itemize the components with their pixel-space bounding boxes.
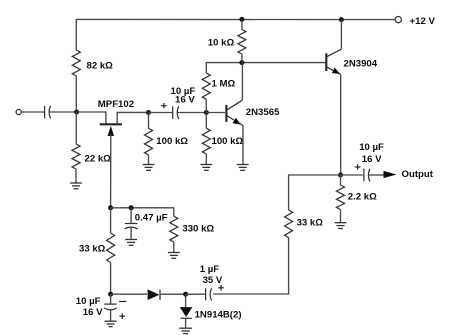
svg-text:16 V: 16 V [362, 154, 382, 165]
label 1M [212, 79, 236, 90]
svg-text:Output: Output [402, 169, 434, 180]
node output junction [338, 173, 343, 178]
node bottom left junction [108, 292, 113, 297]
minus sign 10uF bottom [119, 301, 126, 303]
node diode junction [183, 292, 188, 297]
wire 0.47uF to ground [130, 228, 132, 239]
wire 2N3904 collector up [340, 20, 342, 50]
label 10uF output [359, 142, 384, 153]
node 2N3565 base junction [204, 110, 209, 115]
transistor 2N3565 [206, 100, 243, 125]
label Output [402, 169, 434, 180]
wire top supply rail [76, 19, 395, 50]
wire 10uF bottom to ground [110, 310, 112, 321]
resistor 1M [202, 73, 210, 99]
label 16V output [362, 154, 382, 165]
label 33k left [79, 244, 106, 255]
terminal +12V [395, 17, 401, 23]
svg-text:33 kΩ: 33 kΩ [297, 218, 324, 229]
ground below 100k right [200, 165, 212, 171]
wire tap to 0.47uF [130, 208, 132, 223]
wire mid node to 1uF cap [186, 293, 206, 295]
wire base node to 100k right [205, 113, 207, 129]
wire 82k to input node [75, 76, 77, 112]
plus sign 10uF bottom [120, 313, 126, 319]
svg-text:10 µF: 10 µF [359, 142, 384, 153]
label 16V bottom [83, 307, 103, 318]
label 2N3904 [344, 59, 378, 70]
ground below shunt diode [179, 328, 192, 333]
svg-text:1 MΩ: 1 MΩ [212, 79, 236, 90]
svg-text:100 kΩ: 100 kΩ [156, 136, 188, 147]
node input junction [74, 110, 79, 115]
wire diode to mid node [160, 293, 183, 295]
svg-text:1 µF: 1 µF [200, 264, 220, 275]
wire 100k right to ground [205, 154, 207, 165]
svg-text:16 V: 16 V [83, 307, 103, 318]
label 2.2k [348, 192, 377, 203]
svg-text:MPF102: MPF102 [98, 99, 134, 110]
wire 2N3904 emitter down [340, 74, 342, 175]
svg-text:2N3904: 2N3904 [344, 59, 378, 70]
svg-text:1N914B(2): 1N914B(2) [195, 310, 242, 321]
wire shunt diode to ground [185, 318, 187, 328]
terminal input [16, 109, 21, 114]
ground below 10uF bottom [105, 321, 117, 326]
node feedback junction [108, 205, 113, 210]
label 100k left [156, 136, 188, 147]
wire 2N3565 emitter down [242, 126, 244, 165]
wire 2N3565 collector up [241, 63, 243, 101]
capacitor 10uF interstage [173, 106, 179, 119]
capacitor 10uF output [364, 169, 370, 182]
wire cap to input node [49, 111, 74, 113]
svg-text:+12 V: +12 V [410, 16, 436, 27]
node JFET source junction [146, 110, 151, 115]
transistor MPF102 [100, 112, 146, 136]
svg-text:10 µF: 10 µF [76, 296, 101, 307]
capacitor 10uF bottom [104, 304, 117, 310]
wire cap to base node [177, 112, 204, 114]
wire 2.2k to ground [340, 210, 342, 223]
wire 100k left to ground [148, 155, 150, 165]
wire output node to 2.2k [340, 175, 342, 185]
svg-text:33 kΩ: 33 kΩ [79, 244, 106, 255]
resistor 2.2k [337, 185, 345, 210]
resistor 33k right [285, 210, 293, 238]
label 1N914B(2) [195, 310, 242, 321]
label 82k [87, 61, 114, 72]
ground below 22k [70, 183, 82, 189]
ground below 0.47uF [125, 240, 137, 246]
plus sign 10uF interstage [161, 103, 167, 108]
wire feedback node to 330k [111, 208, 174, 217]
capacitor input coupling [45, 106, 51, 119]
wire source node to 10uF cap [149, 112, 173, 114]
label 10uF interstage [171, 86, 196, 97]
resistor 100k left [145, 128, 153, 155]
label +12 V [410, 16, 436, 27]
resistor 100k right [202, 128, 210, 154]
transistor 2N3904 [326, 49, 341, 74]
ground below 2.2k [335, 223, 347, 229]
svg-text:10 kΩ: 10 kΩ [208, 38, 235, 49]
resistor 10k [238, 30, 246, 54]
label 16V interstage [175, 95, 195, 106]
wire 1M top corner [205, 99, 207, 112]
arrow output [384, 171, 397, 178]
wire 1M to collector rail [206, 63, 325, 73]
svg-text:16 V: 16 V [175, 95, 195, 106]
resistor 22k [72, 144, 80, 169]
diode series 1N914B [148, 289, 160, 300]
wire input node to JFET drain [77, 112, 106, 123]
wire 33k right down to bottom rail [213, 238, 289, 295]
wire output node to cap [341, 174, 363, 176]
label 33k right [297, 218, 324, 229]
svg-text:2N3565: 2N3565 [246, 107, 280, 118]
wire 10k stubs [241, 19, 243, 62]
wire 22k to ground [75, 169, 77, 183]
label 22k [85, 154, 112, 165]
node 10k top junction [239, 17, 244, 22]
wire mid node down to shunt diode [185, 294, 187, 307]
label 330k [182, 224, 214, 235]
wire input to cap [22, 111, 45, 113]
wire bottom node to diode [111, 293, 147, 295]
diode shunt 1N914B [180, 307, 193, 318]
node 0.47uF tap junction [129, 205, 134, 210]
resistor 82k [72, 50, 80, 76]
svg-text:35 V: 35 V [203, 275, 223, 286]
resistor 330k [170, 216, 178, 242]
label 10uF bottom [76, 296, 101, 307]
ground below 330k [168, 253, 180, 259]
plus sign 1uF [218, 285, 224, 291]
svg-text:100 kΩ: 100 kΩ [212, 136, 244, 147]
wire cap to output arrow [369, 174, 385, 176]
svg-text:2.2 kΩ: 2.2 kΩ [348, 192, 377, 203]
label 10k [208, 38, 235, 49]
svg-text:22 kΩ: 22 kΩ [85, 154, 112, 165]
svg-text:82 kΩ: 82 kΩ [87, 61, 114, 72]
wire JFET gate down to feedback node [110, 134, 112, 208]
label 0.47uF [135, 213, 168, 224]
wire source node to 100k [148, 113, 150, 129]
svg-text:330 kΩ: 330 kΩ [182, 224, 214, 235]
ground below 2N3565 emitter [237, 165, 249, 171]
label 100k right [212, 136, 244, 147]
svg-text:0.47 µF: 0.47 µF [135, 213, 168, 224]
label 1uF [200, 264, 220, 275]
node collector 10k junction [239, 60, 244, 65]
label MPF102 [98, 99, 134, 110]
plus sign output cap [355, 164, 361, 170]
node 2N3904 collector rail junction [339, 17, 344, 22]
wire bottom node to 10uF [110, 294, 112, 304]
wire input node down to 22k [75, 112, 77, 144]
wire 330k to ground [173, 242, 175, 253]
capacitor 0.47uF [125, 224, 138, 229]
ground below 100k left [143, 165, 155, 171]
label 35V [203, 275, 223, 286]
capacitor 1uF [206, 288, 212, 300]
resistor 33k left [107, 233, 115, 263]
wire 33k left to bottom node [110, 263, 112, 295]
wire feedback node down to 33k left [110, 208, 112, 233]
wire output node left to 33k [289, 175, 341, 210]
label 2N3565 [246, 107, 280, 118]
